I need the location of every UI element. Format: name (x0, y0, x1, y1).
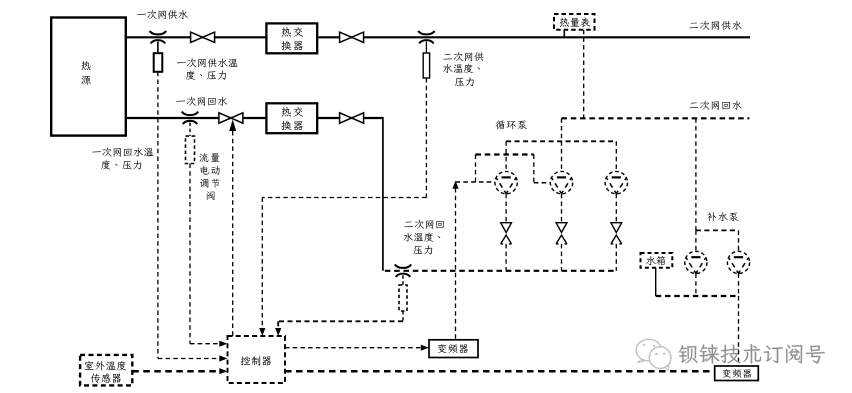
arrow up at pump feed junction (452, 181, 458, 189)
valve V1 on supply pipe (191, 32, 203, 42)
wire: pump 3 bottom stub (615, 194, 617, 223)
wire: CV3 to manifold (615, 244, 617, 271)
wire: return pipe drop to manifold at x=382.9 (382, 117, 384, 271)
sensor S4 well (dashed rect) (399, 285, 407, 311)
heat meter dashed line down to return line (583, 30, 585, 119)
label 二次网供水温度、压力 (443, 52, 483, 61)
wire: control valve signal x=232.7 (232, 131, 234, 336)
wire: riser x=475.5 (475, 155, 477, 183)
pump P1 (循环泵 1) (495, 171, 517, 193)
wire: drop from return line to make-up pumps x=695.9 (695, 118, 697, 230)
sensor S4 tap (二次网回水温度压力) (395, 264, 411, 268)
wire: drop x=533.8 (533, 155, 535, 183)
outdoor temperature sensor box 室外温度传感器 (dashed) (80, 355, 132, 386)
wire: S2 signal down x=190 (189, 164, 191, 344)
wire: make-up pump header y=230.4 (696, 229, 739, 231)
VFD1 box 变频器 (429, 340, 478, 358)
label 一次网供水温度、压力 (177, 58, 238, 67)
check valve CV3 (611, 223, 622, 233)
check valve CV2 (556, 223, 567, 233)
wire: pump 2 bottom stub (561, 194, 563, 223)
wire: MP1 bottom stub (695, 274, 697, 297)
wire: S3 signal down x=426.4 (425, 78, 427, 198)
label 二次网回水温度、压力 (404, 220, 444, 229)
label 一次网回水 (176, 97, 227, 106)
sensor S2 tap (flow sensor on 一次网回水) (182, 112, 198, 116)
arrow into controller (S2) (219, 341, 227, 347)
sensor S2 dashed stem (189, 123, 191, 137)
heat exchanger HX1 box 热交换器 (266, 23, 317, 53)
water tank box 水箱 (dashed) (641, 253, 673, 268)
label 二次网回水 (690, 101, 742, 110)
control valve V3 actuator arrow (229, 120, 236, 132)
wire: VFD1 signal vertical x=455.5 (455, 188, 457, 340)
sensor S3 stem (425, 42, 427, 54)
watermark text 钡铼技术订阅号 (679, 344, 825, 363)
wire: primary return pipe (一次网回水) y=118 (126, 117, 383, 119)
sensor S3 well (solid rect) (423, 53, 429, 78)
sensor S1 tap (一次网供水温度压力) (150, 31, 166, 35)
heat meter box 热量表 (dashed) (554, 14, 595, 30)
control valve V3 电动调节阀 (219, 113, 231, 123)
heat meter solid stem to supply pipe (563, 30, 565, 37)
arrow into VFD1 (421, 345, 429, 351)
arrow into controller top (S3) (259, 328, 265, 336)
pump MP1 (补水泵 1) (685, 251, 707, 273)
label 流量电动调节阀 (199, 153, 219, 162)
wire: MP1 top stub (695, 230, 697, 251)
watermark logo (chat bubbles) (636, 339, 671, 370)
arrow into controller (outdoor sensor) (219, 368, 227, 374)
wire: MP2 top stub (738, 230, 740, 251)
wire: CV1 to manifold (505, 244, 507, 271)
wire: pump 2 top stub (561, 141, 563, 171)
wire: pump 3 top stub (615, 141, 617, 171)
wire: controller to VFD1 (285, 347, 422, 349)
wire: CV2 to manifold (561, 244, 563, 271)
wire: S4 signal run to controller (bold dashed) (278, 320, 403, 322)
wire: S2 signal to controller (190, 343, 220, 345)
label 补水泵 (707, 212, 738, 221)
wire: outdoor sensor to controller (bold dashed) (132, 370, 220, 373)
label 二次网供水 (690, 21, 742, 30)
wire: drop from return line to pump header (561, 118, 563, 141)
wire: pump 1 top stub (505, 141, 507, 171)
wire: S3 signal run y=197.5 (262, 197, 426, 199)
node: heat source box 热源 (51, 18, 126, 136)
sensor S3 tap (二次网供水温度压力) (418, 31, 434, 35)
heat exchanger HX2 box 热交换器 (266, 103, 317, 133)
wire: MP2 down to VFD2 (738, 296, 740, 366)
wire: circulation pump header y=141.3 (506, 140, 616, 142)
valve V2 on supply pipe (340, 32, 352, 42)
controller box 控制器 (dashed) (228, 336, 286, 383)
wire: S4 down to signal run (402, 311, 404, 321)
sensor S1 stem (157, 42, 159, 54)
wire: S1 signal to controller (158, 358, 220, 360)
pump MP2 (补水泵 2) (727, 251, 749, 273)
label 一次网供水 (137, 10, 188, 19)
arrow into controller (S1) (219, 355, 227, 361)
pump P2 (循环泵 2) (550, 171, 572, 193)
arrow into controller top (from S4) (275, 328, 281, 336)
sensor S1 well (solid rect) (154, 53, 163, 72)
wire: bold jumper y=154.5 (476, 153, 534, 155)
wire: secondary return line 二次网回水 (bold dashed) (562, 117, 750, 119)
wire: primary supply pipe (一次网供水) y=37.3 (126, 36, 750, 38)
wire: junction to pump 1 (456, 181, 495, 183)
valve V4 on return pipe (340, 113, 352, 123)
label 循环泵 (496, 120, 527, 129)
VFD2 box 变频器 (715, 366, 759, 381)
wire: secondary return manifold (bold dashed) y=270.8 (385, 270, 616, 272)
sensor S2 well (dashed rect 流量) (186, 136, 195, 163)
label 一次网回水温度、压力 (92, 147, 153, 156)
wire: S3 signal drop x=262.3 (261, 198, 263, 330)
wire: into pump 2 (534, 182, 551, 184)
pump P3 (循环泵 3) (605, 171, 627, 193)
wire: tank stem (solid) (655, 268, 657, 296)
wire: MP2 bottom stub (738, 274, 740, 297)
wire: make-up bottom line (bold dashed) y=296 (656, 295, 739, 297)
wire: pump 1 bottom stub (505, 194, 507, 223)
wire: S1 signal down x=157.9 (157, 72, 159, 359)
sensor S4 dashed stem (402, 275, 404, 285)
check valve CV1 (501, 223, 512, 233)
wire: controller to VFD2 (bold dashed) y=371.2 (285, 370, 714, 373)
